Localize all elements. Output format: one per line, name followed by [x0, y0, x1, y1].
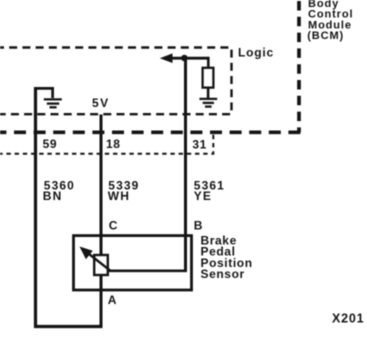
svg-text:X201: X201 — [332, 312, 364, 326]
svg-text:C: C — [109, 219, 118, 233]
wire: corner down to pull-up resistor — [207, 57, 210, 69]
arrowhead: wiper arrow (points up-left) — [80, 247, 93, 260]
wire: bottom return from sensor A to pin 59 wire — [34, 325, 102, 328]
label: Brake Pedal Position Sensor — [201, 233, 253, 281]
svg-text:BN: BN — [43, 189, 63, 203]
svg-text:WH: WH — [108, 189, 130, 203]
svg-text:59: 59 — [43, 137, 58, 151]
wire: pin 59 vertical (5360 BN) — [34, 87, 37, 328]
wire label: 5360 BN — [43, 179, 75, 204]
BCM module boundary (dashed right edge and bottom edge) — [297, 0, 301, 132]
wire: pin 31 vertical (5361 YE, signal) — [184, 57, 187, 272]
brake pedal position sensor box — [74, 236, 192, 290]
logic region boundary (dashed) — [0, 48, 232, 115]
connector row boundary (dotted bottom and right edge) — [0, 135, 213, 154]
ground: BCM internal ground on pin 59 circuit — [44, 99, 62, 107]
label: Body Control Module (BCM) — [307, 0, 353, 42]
svg-text:A: A — [108, 293, 117, 307]
svg-text:31: 31 — [192, 138, 207, 152]
svg-text:Logic: Logic — [238, 45, 274, 59]
junction dot on pin 31 wire — [181, 55, 188, 62]
resistor R (pull-up inside BCM) — [203, 68, 214, 88]
wire: ground bend at top of pin 59 wire — [34, 88, 54, 98]
potentiometer wiper diagonal — [89, 254, 111, 271]
wire: horizontal logic signal wire — [166, 57, 208, 60]
svg-text:18: 18 — [106, 137, 121, 151]
wire: wiper output to terminal B — [108, 269, 187, 272]
ground: BCM internal ground under resistor — [199, 99, 217, 107]
wire: pin 18 vertical (5339 WH, 5V feed) — [100, 115, 103, 329]
svg-text:5V: 5V — [92, 96, 109, 110]
arrowhead: signal into logic (points left) — [160, 53, 173, 63]
wire: resistor to internal ground — [207, 88, 210, 99]
svg-text:Sensor: Sensor — [201, 267, 245, 281]
svg-text:YE: YE — [194, 189, 212, 203]
wire label: 5361 YE — [194, 179, 225, 204]
potentiometer element (resistor box on pin18/A wire) — [94, 255, 108, 275]
svg-text:B: B — [194, 218, 203, 232]
wire label: 5339 WH — [108, 179, 140, 204]
svg-text:(BCM): (BCM) — [307, 30, 344, 42]
